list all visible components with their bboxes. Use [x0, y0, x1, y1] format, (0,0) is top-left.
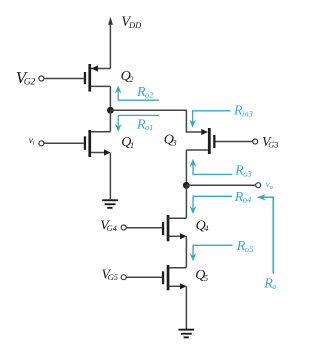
transistor Q5 (NMOS) — [162, 265, 187, 290]
wire Q2 drain to node — [109, 86, 111, 110]
wire Q3 drain to node vo — [185, 150, 187, 185]
wire node to Q3 source — [110, 110, 201, 132]
terminal VG3 — [253, 139, 258, 144]
annotation Rin3 — [193, 111, 231, 123]
annotation Ro3 — [193, 164, 232, 175]
annotation Ro (output resistance arrow) — [262, 197, 273, 273]
ground (Q5 source) — [178, 329, 194, 339]
wire VG4 to Q4 gate — [126, 227, 161, 229]
wire node vo to terminal — [186, 184, 255, 186]
wire node vo to Q4 drain — [185, 185, 187, 218]
wire Q4 source to Q5 drain — [185, 236, 187, 267]
annotation Ro4 — [193, 196, 232, 209]
wire Q1 drain to node — [109, 110, 111, 132]
terminal VG5 — [121, 275, 126, 280]
terminal vo — [256, 183, 261, 188]
wire VG5 to Q5 gate — [126, 276, 161, 278]
node A (Q1/Q2 drains) — [107, 107, 114, 114]
transistor Q1 (NMOS) — [84, 130, 111, 157]
terminal vi — [39, 141, 44, 146]
annotation Ro5 — [193, 245, 233, 256]
power VDD arrow — [109, 22, 111, 69]
wire Q5 source to ground — [185, 286, 187, 329]
wire VG2 to Q2 gate — [44, 78, 84, 80]
annotation Ro2 — [118, 91, 159, 101]
ground (Q1 source) — [102, 199, 118, 208]
transistor Q3 (PMOS, mirrored) — [186, 128, 252, 154]
annotation Ro1 — [118, 115, 159, 127]
transistor Q4 (NMOS) — [162, 215, 187, 241]
wire vi to Q1 gate — [44, 142, 84, 144]
node vo — [183, 182, 190, 189]
terminal VG4 — [121, 225, 126, 230]
terminal VG2 — [39, 76, 44, 81]
wire Q1 source down — [109, 153, 111, 200]
transistor Q2 (PMOS) — [84, 64, 111, 92]
